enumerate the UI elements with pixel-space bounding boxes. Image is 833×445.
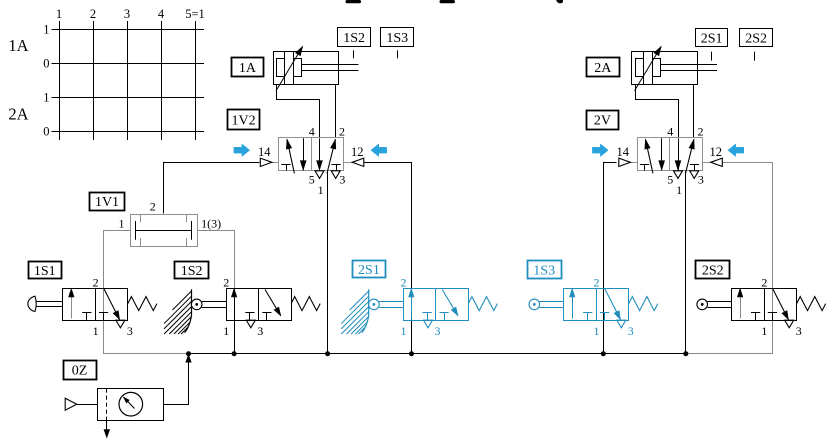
valve 1V1 (two-pressure AND valve): [119, 199, 222, 246]
valve 2V (5/2-way double pilot valve): [617, 125, 723, 197]
svg-text:1: 1: [401, 324, 407, 338]
wire: 1A left port to 1V2 port 4: [277, 85, 320, 138]
sensor position marker 2S2: [740, 29, 773, 61]
cropped title text descenders: [346, 0, 563, 3]
svg-text:14: 14: [258, 145, 271, 159]
svg-text:1S3: 1S3: [533, 264, 555, 279]
svg-text:2: 2: [594, 275, 600, 289]
junction node at (685.8,353.7): [683, 351, 688, 356]
svg-text:2: 2: [150, 199, 156, 213]
label box 1S2: [175, 262, 209, 280]
svg-text:3: 3: [124, 7, 130, 21]
svg-text:1S1: 1S1: [34, 264, 56, 279]
label box 2V: [587, 111, 619, 130]
wire: 2V pilot 14 through 1S3 to bus: [604, 163, 617, 354]
svg-text:2S2: 2S2: [702, 263, 724, 278]
wire: 2V pilot 12 loop through 2S2 to bus (gray): [686, 163, 773, 354]
svg-text:2: 2: [401, 275, 407, 289]
svg-text:3: 3: [628, 324, 634, 338]
wire: 1V1 port 2 to 1V2 pilot 14: [164, 163, 260, 214]
svg-text:2A: 2A: [8, 104, 28, 123]
actuation arrow at 1V2 pilot 12 (blue): [371, 144, 387, 157]
wire: 2V port 1 to bus: [685, 170, 687, 353]
label box 2S1 (blue): [353, 261, 386, 279]
svg-text:0: 0: [43, 57, 49, 71]
svg-text:2: 2: [93, 275, 99, 289]
wire: 1V1 port 1(3) to 1S2 port 2: [198, 231, 235, 289]
svg-text:4: 4: [667, 125, 673, 139]
svg-text:14: 14: [617, 145, 630, 159]
svg-text:3: 3: [796, 324, 802, 338]
svg-text:1: 1: [318, 183, 324, 197]
wire: 2A right port to 2V port 2: [693, 84, 695, 138]
wire: 1V2 port 1 to bus: [327, 170, 329, 353]
svg-text:3: 3: [257, 324, 263, 338]
label box 2S2: [696, 261, 730, 279]
label box 1V2: [228, 110, 260, 130]
svg-text:1: 1: [761, 324, 767, 338]
valve 1S2 (3/2-way roller lever valve, shown actuated): [191, 275, 320, 337]
wire: 1S2 port 1 to bus: [234, 288, 236, 354]
svg-text:0: 0: [43, 125, 49, 139]
junction node at (188.5,353.7): [186, 351, 191, 356]
actuation arrow at 2V pilot 14 (blue): [592, 144, 608, 157]
svg-text:1A: 1A: [239, 61, 257, 76]
sensor position marker 1S3: [381, 28, 414, 59]
valve 2S2 (3/2-way roller lever valve): [697, 275, 826, 337]
svg-text:2: 2: [90, 7, 96, 21]
svg-text:5: 5: [667, 173, 673, 187]
service unit 0Z (air supply with filter regulator gauge): [65, 389, 163, 438]
cam actuating 2S1 (blue): [341, 289, 369, 334]
label box 2A: [587, 58, 620, 77]
svg-text:2S1: 2S1: [358, 263, 380, 278]
svg-text:4: 4: [309, 125, 315, 139]
actuation arrow at 2V pilot 12 (blue): [728, 144, 744, 157]
svg-text:0Z: 0Z: [72, 364, 88, 379]
svg-text:12: 12: [351, 145, 364, 159]
svg-text:1: 1: [43, 23, 49, 37]
svg-text:3: 3: [698, 173, 704, 187]
svg-text:2A: 2A: [594, 61, 612, 76]
wire: 2A left port to 2V port 4: [636, 85, 679, 138]
valve 1S3 (3/2-way roller lever valve, blue): [529, 275, 658, 337]
sensor position marker 1S2: [338, 28, 371, 59]
svg-text:1: 1: [93, 324, 99, 338]
svg-text:3: 3: [127, 324, 133, 338]
valve 2S1 (3/2-way roller lever valve, blue, shown actuated): [369, 275, 498, 337]
svg-text:1(3): 1(3): [201, 216, 221, 230]
svg-text:2V: 2V: [594, 114, 611, 129]
label box 1S3 (blue): [528, 261, 562, 279]
svg-text:1: 1: [676, 183, 682, 197]
svg-text:2S1: 2S1: [701, 31, 723, 46]
svg-text:1: 1: [43, 91, 49, 105]
svg-text:1S2: 1S2: [343, 31, 365, 46]
label box 1S1: [29, 262, 62, 279]
displacement-step diagram grid: [8, 7, 204, 140]
cylinder 2A (double-acting with adjustable cushioning): [632, 47, 718, 91]
svg-text:12: 12: [710, 145, 723, 159]
junction node at (234.1,353.7): [232, 351, 237, 356]
svg-text:1: 1: [56, 7, 62, 21]
svg-text:2: 2: [339, 125, 345, 139]
svg-text:1V2: 1V2: [232, 113, 256, 128]
wire: 1A right port to 1V2 port 2: [335, 84, 337, 138]
junction node at (603.3,353.7): [601, 351, 606, 356]
svg-text:2: 2: [698, 125, 704, 139]
wire: 1V2 pilot 12 through 2S1 to bus: [364, 163, 412, 354]
label box 1V1: [90, 193, 125, 211]
valve 1S1 (3/2-way pushbutton valve, spring return): [28, 275, 157, 337]
wire: supply bus gray segment (1S1 branch to 0Z junction): [104, 231, 189, 354]
junction node at (327.6,353.7): [325, 351, 330, 356]
actuation arrow at 1V2 pilot 14 (blue): [234, 144, 250, 157]
svg-text:3: 3: [435, 324, 441, 338]
svg-text:1S2: 1S2: [181, 264, 203, 279]
svg-text:1V1: 1V1: [95, 195, 119, 210]
label box 1A: [232, 58, 264, 77]
svg-text:5: 5: [309, 173, 315, 187]
svg-text:2: 2: [761, 275, 767, 289]
sensor position marker 2S1: [696, 29, 728, 61]
svg-text:4: 4: [158, 7, 165, 21]
cam actuating 1S2: [164, 289, 192, 334]
svg-text:3: 3: [339, 173, 345, 187]
svg-text:1: 1: [223, 324, 229, 338]
wire: 0Z output to supply bus: [164, 355, 192, 405]
svg-text:2: 2: [223, 275, 229, 289]
wire: main supply bus: [189, 353, 686, 355]
svg-text:5=1: 5=1: [185, 7, 205, 21]
svg-text:1: 1: [119, 216, 125, 230]
svg-text:1: 1: [594, 324, 600, 338]
svg-text:2S2: 2S2: [745, 31, 767, 46]
valve 1V2 (5/2-way double pilot valve): [258, 125, 364, 197]
svg-text:1S3: 1S3: [386, 31, 408, 46]
svg-text:1A: 1A: [8, 36, 28, 55]
cylinder 1A (double-acting with adjustable cushioning): [274, 47, 359, 91]
junction node at (411.5,353.7): [409, 351, 414, 356]
label box 0Z: [64, 361, 97, 380]
